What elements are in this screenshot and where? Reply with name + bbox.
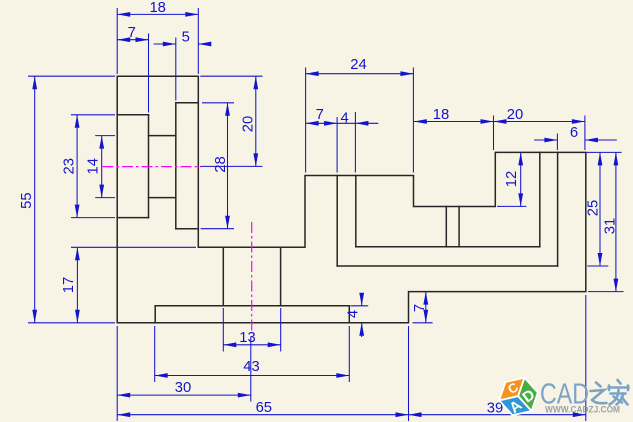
svg-text:65: 65 <box>256 400 272 416</box>
svg-text:31: 31 <box>602 218 618 234</box>
svg-text:18: 18 <box>149 0 165 16</box>
svg-text:28: 28 <box>213 156 229 172</box>
svg-text:WWW.CADZJ.COM: WWW.CADZJ.COM <box>545 404 620 414</box>
svg-text:12: 12 <box>504 171 520 187</box>
svg-text:55: 55 <box>19 192 35 208</box>
svg-text:30: 30 <box>175 380 191 396</box>
svg-text:7: 7 <box>128 25 136 41</box>
svg-text:23: 23 <box>62 158 78 174</box>
svg-text:7: 7 <box>412 304 428 312</box>
svg-text:5: 5 <box>182 30 190 46</box>
svg-text:43: 43 <box>243 359 259 375</box>
svg-text:20: 20 <box>241 116 257 132</box>
svg-text:4: 4 <box>340 110 348 126</box>
svg-text:18: 18 <box>433 107 449 123</box>
svg-text:14: 14 <box>86 158 102 174</box>
svg-text:20: 20 <box>507 107 523 123</box>
svg-text:13: 13 <box>239 330 255 346</box>
svg-text:4: 4 <box>346 310 362 318</box>
svg-text:6: 6 <box>570 125 578 141</box>
svg-text:24: 24 <box>350 57 366 73</box>
svg-text:17: 17 <box>61 277 77 293</box>
svg-text:7: 7 <box>316 107 324 123</box>
svg-text:25: 25 <box>586 200 602 216</box>
